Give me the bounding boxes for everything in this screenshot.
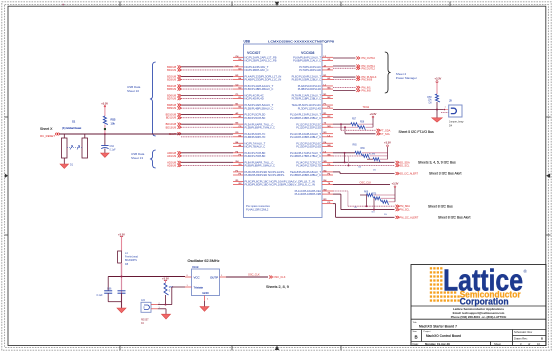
svg-text:R58: R58 <box>360 121 365 123</box>
svg-text:Tristate: Tristate <box>194 285 204 289</box>
svg-text:G: G <box>143 306 145 310</box>
svg-text:Corporation: Corporation <box>460 297 509 307</box>
svg-text:10k: 10k <box>111 121 116 125</box>
svg-text:J24: J24 <box>141 299 146 302</box>
svg-text:OSC_CLK: OSC_CLK <box>360 181 372 184</box>
svg-text:BD13/U9: BD13/U9 <box>166 125 177 129</box>
svg-text:PM_SDA: PM_SDA <box>400 204 411 208</box>
svg-text:PL4B/PL23D/PL3OPLL1C_IN: PL4B/PL23D/PL3OPLL1C_IN <box>245 78 282 82</box>
svg-text:R58: R58 <box>427 97 432 99</box>
svg-text:LCMXO2280C-XXXXXXXCTN8TQFP8: LCMXO2280C-XXXXXXXCTN8TQFP8 <box>268 40 334 44</box>
svg-text:PL11D/PL16BPL16BLV_C: PL11D/PL16BPL16BLV_C <box>290 135 321 139</box>
svg-text:AD3/U9: AD3/U9 <box>167 163 177 167</box>
svg-text:BK2020HS: BK2020HS <box>125 259 137 262</box>
svg-text:PL15B/PL20BPL18BLV_C: PL15B/PL20BPL18BLV_C <box>290 173 321 177</box>
svg-text:PM_I2C_ALERT: PM_I2C_ALERT <box>400 215 419 219</box>
svg-text:FT_SCL: FT_SCL <box>381 132 391 136</box>
svg-text:MachXO Control Board: MachXO Control Board <box>426 334 461 338</box>
svg-text:Sheets 2, 8, 9: Sheets 2, 8, 9 <box>266 285 289 289</box>
svg-text:(K) Global Reset: (K) Global Reset <box>62 126 81 130</box>
svg-text:Oscillator 62.5MHz: Oscillator 62.5MHz <box>188 259 220 263</box>
svg-text:VCCIO8: VCCIO8 <box>301 51 314 55</box>
svg-text:Date:: Date: <box>413 342 419 346</box>
svg-text:PM_SCL: PM_SCL <box>400 208 411 212</box>
svg-text:PL8D/PL8DPL9D NC/PL1B/PL: PL8D/PL8DPL9D NC/PL1B/PL <box>245 173 286 177</box>
svg-text:U9-B: U9-B <box>192 265 199 269</box>
svg-text:+3.3V: +3.3V <box>435 76 442 80</box>
svg-text:Sheets 3, 4, 5, 9 I2C Bus: Sheets 3, 4, 5, 9 I2C Bus <box>418 161 456 165</box>
svg-text:NC/PL3B/PL3AV_C: NC/PL3B/PL3AV_C <box>245 68 269 72</box>
svg-text:+3.3V: +3.3V <box>162 277 169 281</box>
svg-text:Jumper_heay: Jumper_heay <box>449 120 464 123</box>
svg-text:+3.3V: +3.3V <box>118 233 125 237</box>
svg-text:BD5/U9: BD5/U9 <box>167 87 177 91</box>
svg-text:Sheet 8 I2C Bus Alert: Sheet 8 I2C Bus Alert <box>438 216 470 220</box>
svg-text:BD11/U9: BD11/U9 <box>166 116 177 120</box>
svg-text:PL3D/PL11DPL14D: PL3D/PL11DPL14D <box>298 106 321 110</box>
svg-text:+3.3V: +3.3V <box>384 141 391 145</box>
svg-text:Sheet 10: Sheet 10 <box>127 89 139 93</box>
svg-text:R66: R66 <box>361 148 366 150</box>
svg-text:MachXO Starter Board 7: MachXO Starter Board 7 <box>419 325 457 329</box>
svg-text:BD3/U9: BD3/U9 <box>167 78 177 82</box>
svg-text:AD1/U9: AD1/U9 <box>167 154 177 158</box>
svg-text:PL5D/PL5CPL5D: PL5D/PL5CPL5D <box>245 116 266 120</box>
svg-text:U8B: U8B <box>244 40 251 44</box>
svg-text:+3.3V: +3.3V <box>370 112 377 116</box>
svg-text:Monday, 19-Apr-09: Monday, 19-Apr-09 <box>425 342 450 346</box>
svg-text:BD1/U9: BD1/U9 <box>167 68 177 72</box>
svg-text:Ferrite,bead: Ferrite,bead <box>125 256 139 259</box>
svg-text:PM_OUT12: PM_OUT12 <box>362 66 376 70</box>
svg-text:BD9/U9: BD9/U9 <box>167 106 177 110</box>
svg-text:PL6D/PL7DPL8D: PL6D/PL7DPL8D <box>245 154 266 158</box>
svg-text:VCC: VCC <box>194 275 200 279</box>
svg-text:PL4A/L15R/C2ML2: PL4A/L15R/C2ML2 <box>246 207 269 211</box>
svg-text:Sheet 3 I2C Bus Alert: Sheet 3 I2C Bus Alert <box>429 172 461 176</box>
svg-text:Sheet 8 I2C Bus: Sheet 8 I2C Bus <box>428 204 453 208</box>
svg-text:Phone (503) 268-8001 -or- (8: Phone (503) 268-8001 -or- (800)-LATTICE <box>451 315 507 319</box>
svg-text:PL14D/PL17DPL17D: PL14D/PL17DPL17D <box>296 164 321 168</box>
svg-text:C66: C66 <box>107 287 112 290</box>
svg-text:PM_IN0: PM_IN0 <box>362 89 372 93</box>
svg-text:S1: S1 <box>72 120 76 124</box>
svg-text:PL6B/PL6DPL7D: PL6B/PL6DPL7D <box>245 135 266 139</box>
svg-text:BD7/U9: BD7/U9 <box>167 97 177 101</box>
svg-text:R_SM: R_SM <box>369 154 375 156</box>
svg-text:PM_IN09: PM_IN09 <box>362 77 373 81</box>
svg-text:PM_OUT10: PM_OUT10 <box>362 56 376 60</box>
svg-text:0.1uF: 0.1uF <box>110 148 117 151</box>
svg-text:PL11D/PL16B/PL19B: PL11D/PL16B/PL19B <box>295 192 322 196</box>
svg-text:R55: R55 <box>111 117 116 121</box>
svg-text:PL5B/PL6BPR_TMALV_C: PL5B/PL6BPR_TMALV_C <box>245 125 275 129</box>
svg-text:NC/PL7B/ALV_C: NC/PL7B/ALV_C <box>245 144 266 148</box>
svg-text:NC/PL4D/PL4D: NC/PL4D/PL4D <box>245 97 264 101</box>
svg-text:Sheet 5 I2C FT-I/O Bus: Sheet 5 I2C FT-I/O Bus <box>399 130 435 134</box>
svg-text:RC_RESET: RC_RESET <box>40 134 55 138</box>
svg-text:+3.3V: +3.3V <box>392 182 399 186</box>
svg-text:Sheet 13: Sheet 13 <box>131 156 143 160</box>
svg-text:R70: R70 <box>372 194 377 196</box>
svg-text:PL5B/PL4BPL5BALV_C: PL5B/PL4BPL5BALV_C <box>245 106 274 110</box>
svg-text:PL9B/PL10DPL12D: PL9B/PL10DPL12D <box>298 87 321 91</box>
svg-text:OUTP: OUTP <box>210 275 218 279</box>
svg-text:B: B <box>415 335 418 340</box>
svg-text:PL6D/PL10BPL12BLV_C: PL6D/PL10BPL12BLV_C <box>292 78 321 82</box>
svg-text:of: of <box>528 342 530 346</box>
svg-text:FT_SDA: FT_SDA <box>381 128 391 132</box>
svg-text:R65: R65 <box>353 145 358 147</box>
svg-text:Sheet X: Sheet X <box>40 127 53 131</box>
svg-text:Project: Project <box>424 330 431 333</box>
svg-text:PLx spare resources: PLx spare resources <box>246 204 270 208</box>
svg-text:NC/PL2B/PL2APLL1C_FB: NC/PL2B/PL2APLL1C_FB <box>245 59 277 63</box>
svg-text:Sheet: Sheet <box>494 342 501 346</box>
svg-text:PL10B/PL13BPL15BLV_C: PL10B/PL13BPL15BLV_C <box>290 116 321 120</box>
svg-text:Power Manager: Power Manager <box>396 76 417 80</box>
svg-text:PL6B/PL8BPL11ALV_C: PL6B/PL8BPL11ALV_C <box>293 59 321 63</box>
svg-text:PL13B/PL17BPL17BLV_C: PL13B/PL17BPL17BLV_C <box>290 154 321 158</box>
svg-text:PL13D/PL16DPL16D: PL13D/PL16DPL16D <box>296 144 321 148</box>
svg-text:R57: R57 <box>352 118 357 120</box>
svg-text:PL12D/PL13DPL15D: PL12D/PL13DPL15D <box>296 125 321 129</box>
svg-text:GND: GND <box>202 291 208 295</box>
svg-text:B: B <box>541 337 543 341</box>
svg-text:R69: R69 <box>364 191 369 193</box>
svg-text:SD_SCL: SD_SCL <box>400 163 410 167</box>
svg-text:PLT3/PL4DPL11D: PLT3/PL4DPL11D <box>299 68 321 72</box>
svg-text:PLTB/PL11BPL13BLV_C: PLTB/PL11BPL13BLV_C <box>292 97 321 101</box>
svg-text:RESET: RESET <box>141 320 149 322</box>
svg-text:Drawn Rev:: Drawn Rev: <box>514 337 528 341</box>
svg-text:PL5D/PL4BPL4BALV_C: PL5D/PL4BPL4BALV_C <box>245 87 274 91</box>
svg-text:0.1uF: 0.1uF <box>97 294 104 297</box>
svg-text:VCCIO7: VCCIO7 <box>247 51 260 55</box>
svg-text:+3.3V: +3.3V <box>101 101 108 105</box>
svg-text:PL8D/PL8DPL18D NC/PL10B/PL10B: PL8D/PL8DPL18D NC/PL10B/PL10B/LV_DPLL8_C… <box>245 183 315 187</box>
svg-text:TDI11: TDI11 <box>363 106 370 109</box>
svg-text:SD_I2C_ALERT: SD_I2C_ALERT <box>400 172 419 176</box>
svg-text:PL8B/PL8BPR_SMALV_C: PL8B/PL8BPR_SMALV_C <box>245 164 275 168</box>
svg-text:OSC_CLK: OSC_CLK <box>274 275 286 279</box>
svg-text:OSC_CLK: OSC_CLK <box>248 274 260 277</box>
svg-text:Schematic: Rev: Schematic: Rev <box>514 330 533 334</box>
